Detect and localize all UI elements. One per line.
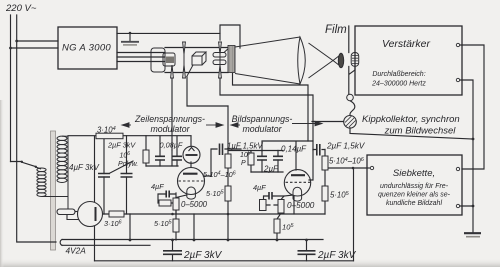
svg-text:2µF 3kV: 2µF 3kV — [107, 141, 136, 150]
svg-text:kundliche Bildzahl: kundliche Bildzahl — [386, 200, 442, 207]
svg-text:0–5000: 0–5000 — [287, 201, 315, 210]
svg-text:2µF 1,5kV: 2µF 1,5kV — [326, 142, 366, 151]
svg-text:Bildspannungs-: Bildspannungs- — [232, 114, 293, 124]
svg-text:220 V~: 220 V~ — [5, 3, 37, 14]
svg-text:5·104–106: 5·104–106 — [329, 157, 365, 166]
svg-text:Siebkette,: Siebkette, — [393, 168, 435, 179]
svg-text:0–5000: 0–5000 — [181, 200, 208, 209]
svg-text:0,14µF: 0,14µF — [281, 145, 307, 154]
svg-text:Verstärker: Verstärker — [382, 38, 431, 50]
svg-text:Polyw.: Polyw. — [118, 161, 138, 168]
svg-text:4V2A: 4V2A — [66, 246, 87, 256]
svg-text:2µF 3kV: 2µF 3kV — [317, 250, 357, 261]
svg-text:Durchlaßbereich:: Durchlaßbereich: — [372, 71, 425, 78]
svg-text:P: P — [241, 160, 246, 167]
svg-text:4µF 3kV: 4µF 3kV — [69, 163, 99, 172]
svg-text:4µF: 4µF — [151, 182, 164, 191]
svg-text:0,08µF: 0,08µF — [160, 141, 183, 150]
svg-text:Film: Film — [325, 24, 347, 36]
svg-text:modulator: modulator — [150, 124, 190, 134]
svg-text:1µF 1,5kV: 1µF 1,5kV — [227, 142, 263, 151]
svg-text:NG A 3000: NG A 3000 — [62, 43, 111, 54]
svg-text:quenzen kleiner als se-: quenzen kleiner als se- — [378, 192, 451, 199]
svg-text:2µF 3kV: 2µF 3kV — [183, 250, 223, 261]
svg-text:Zeilenspannungs-: Zeilenspannungs- — [134, 114, 205, 124]
svg-text:2µF: 2µF — [263, 165, 279, 174]
svg-text:4µF: 4µF — [253, 183, 266, 192]
svg-text:24–300000 Hertz: 24–300000 Hertz — [371, 81, 426, 88]
svg-text:Kippkollektor, synchron: Kippkollektor, synchron — [362, 114, 460, 125]
svg-text:zum Bildwechsel: zum Bildwechsel — [384, 126, 457, 137]
svg-text:undurchlässig für Fre-: undurchlässig für Fre- — [380, 183, 449, 190]
svg-text:modulator: modulator — [242, 124, 282, 134]
